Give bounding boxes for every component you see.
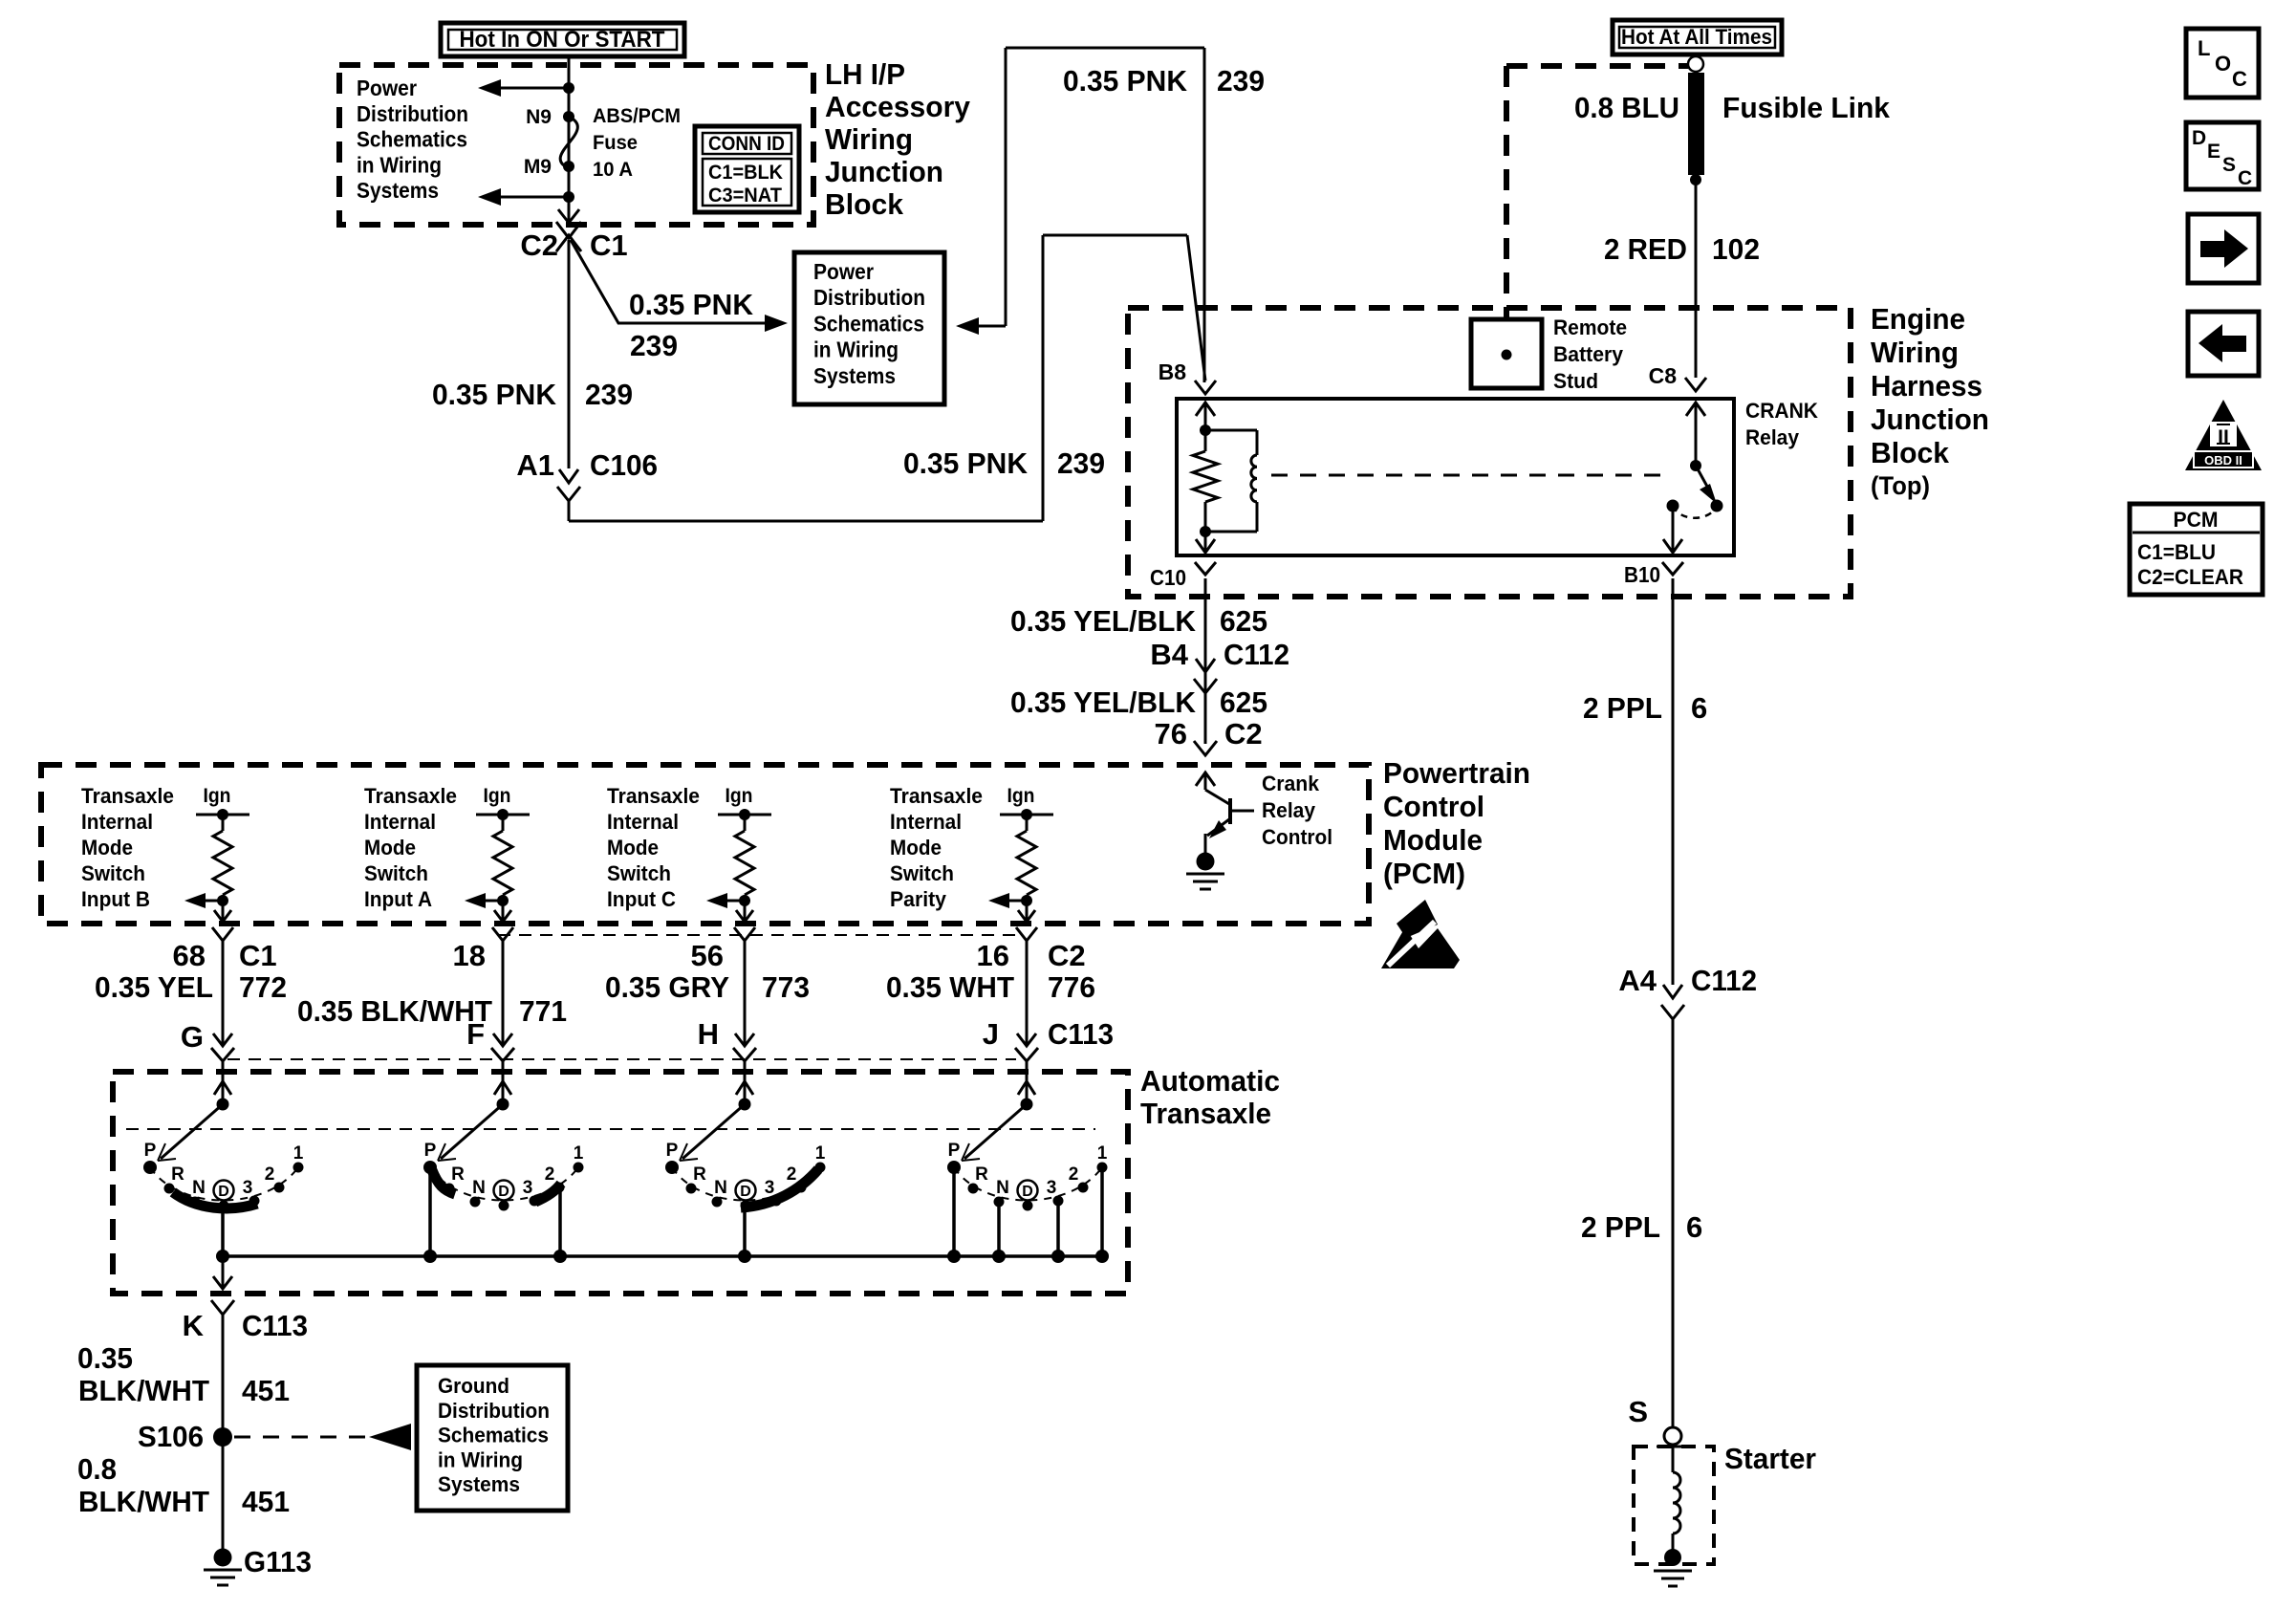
svg-text:Mode: Mode — [607, 836, 659, 859]
svg-text:0.35 YEL: 0.35 YEL — [95, 970, 213, 1004]
svg-text:C2=CLEAR: C2=CLEAR — [2137, 565, 2243, 589]
svg-text:O: O — [2215, 52, 2231, 76]
svg-text:S: S — [2222, 154, 2236, 176]
svg-text:Schematics: Schematics — [438, 1424, 549, 1447]
svg-text:in Wiring: in Wiring — [813, 337, 899, 362]
svg-text:Harness: Harness — [1871, 369, 1982, 402]
svg-text:3: 3 — [765, 1178, 775, 1198]
svg-text:Remote: Remote — [1553, 315, 1627, 339]
svg-text:0.8 BLU: 0.8 BLU — [1574, 91, 1679, 124]
svg-text:A1: A1 — [516, 448, 554, 482]
svg-text:C3=NAT: C3=NAT — [708, 185, 782, 207]
svg-text:K: K — [183, 1309, 205, 1342]
svg-text:C8: C8 — [1649, 363, 1678, 388]
svg-text:H: H — [698, 1017, 719, 1051]
svg-text:II: II — [2218, 426, 2229, 448]
svg-text:J: J — [983, 1017, 999, 1051]
svg-text:Junction: Junction — [1871, 402, 1989, 436]
svg-text:0.35 BLK/WHT: 0.35 BLK/WHT — [297, 994, 492, 1028]
svg-text:D: D — [2192, 127, 2206, 149]
svg-text:Parity: Parity — [890, 887, 947, 911]
svg-text:68: 68 — [173, 939, 206, 972]
svg-text:Distribution: Distribution — [357, 101, 468, 126]
svg-text:F: F — [466, 1017, 485, 1051]
svg-text:P: P — [948, 1141, 961, 1161]
svg-text:Input C: Input C — [607, 887, 676, 911]
svg-text:451: 451 — [242, 1374, 290, 1407]
svg-text:P: P — [424, 1141, 437, 1161]
svg-text:Fuse: Fuse — [593, 132, 638, 154]
svg-text:(PCM): (PCM) — [1383, 857, 1465, 890]
svg-text:N: N — [996, 1178, 1009, 1198]
svg-text:2: 2 — [265, 1164, 275, 1185]
svg-text:ABS/PCM: ABS/PCM — [593, 105, 681, 127]
svg-text:Internal: Internal — [364, 810, 436, 834]
svg-text:0.35 PNK: 0.35 PNK — [432, 378, 557, 411]
svg-text:239: 239 — [1057, 446, 1105, 480]
svg-text:Block: Block — [1871, 436, 1950, 469]
svg-text:P: P — [666, 1141, 679, 1161]
svg-text:C: C — [2238, 167, 2252, 189]
svg-text:18: 18 — [453, 939, 486, 972]
svg-text:D: D — [1022, 1184, 1033, 1200]
svg-text:2 PPL: 2 PPL — [1581, 1210, 1660, 1244]
svg-text:771: 771 — [519, 994, 567, 1028]
svg-text:Internal: Internal — [890, 810, 962, 834]
svg-text:776: 776 — [1048, 970, 1095, 1004]
svg-text:Ign: Ign — [1007, 785, 1035, 807]
svg-text:625: 625 — [1220, 604, 1267, 638]
svg-text:Switch: Switch — [81, 861, 145, 885]
svg-text:C112: C112 — [1691, 964, 1757, 997]
svg-text:Distribution: Distribution — [438, 1399, 550, 1423]
svg-text:PCM: PCM — [2174, 508, 2219, 532]
svg-text:0.35 PNK: 0.35 PNK — [903, 446, 1029, 480]
svg-text:CRANK: CRANK — [1745, 399, 1818, 423]
svg-text:0.35 WHT: 0.35 WHT — [886, 970, 1014, 1004]
svg-text:C112: C112 — [1224, 638, 1289, 671]
svg-text:Switch: Switch — [607, 861, 671, 885]
svg-text:A4: A4 — [1618, 964, 1657, 997]
svg-text:C2: C2 — [520, 228, 558, 262]
svg-text:S106: S106 — [138, 1420, 204, 1453]
svg-text:C1=BLU: C1=BLU — [2137, 540, 2216, 564]
svg-text:R: R — [171, 1164, 184, 1185]
svg-text:Hot At All Times: Hot At All Times — [1621, 25, 1772, 49]
svg-text:Battery: Battery — [1553, 342, 1624, 366]
svg-text:C2: C2 — [1224, 717, 1263, 751]
svg-text:LH I/P: LH I/P — [825, 57, 905, 91]
svg-text:C1=BLK: C1=BLK — [708, 162, 783, 184]
svg-text:R: R — [975, 1164, 988, 1185]
svg-text:D: D — [498, 1184, 509, 1200]
svg-text:Power: Power — [813, 259, 874, 284]
svg-text:R: R — [693, 1164, 706, 1185]
svg-text:Switch: Switch — [890, 861, 954, 885]
svg-text:Stud: Stud — [1553, 369, 1598, 393]
svg-text:3: 3 — [1047, 1178, 1057, 1198]
svg-text:772: 772 — [239, 970, 287, 1004]
svg-text:Transaxle: Transaxle — [1140, 1097, 1271, 1130]
svg-text:B10: B10 — [1624, 562, 1660, 587]
svg-text:Distribution: Distribution — [813, 285, 925, 310]
svg-text:0.35 YEL/BLK: 0.35 YEL/BLK — [1010, 685, 1197, 719]
svg-text:Switch: Switch — [364, 861, 428, 885]
svg-text:Ign: Ign — [204, 785, 231, 807]
svg-text:Ign: Ign — [726, 785, 753, 807]
svg-text:Input B: Input B — [81, 887, 150, 911]
svg-text:C: C — [2232, 67, 2247, 91]
svg-text:CONN ID: CONN ID — [708, 133, 785, 155]
svg-text:239: 239 — [630, 329, 678, 362]
svg-text:56: 56 — [691, 939, 724, 972]
svg-text:2: 2 — [787, 1164, 797, 1185]
svg-text:Control: Control — [1262, 825, 1332, 849]
svg-text:Transaxle: Transaxle — [890, 784, 983, 808]
svg-text:0.35 GRY: 0.35 GRY — [605, 970, 729, 1004]
svg-text:OBD II: OBD II — [2204, 453, 2242, 468]
svg-text:Relay: Relay — [1262, 798, 1316, 822]
svg-text:451: 451 — [242, 1485, 290, 1518]
svg-text:Ground: Ground — [438, 1374, 509, 1398]
svg-text:Mode: Mode — [364, 836, 416, 859]
svg-text:C2: C2 — [1048, 939, 1086, 972]
svg-text:N: N — [192, 1178, 206, 1198]
svg-text:Input A: Input A — [364, 887, 432, 911]
svg-text:Accessory: Accessory — [825, 90, 971, 123]
svg-text:Block: Block — [825, 187, 904, 221]
svg-text:Module: Module — [1383, 823, 1483, 857]
svg-text:625: 625 — [1220, 685, 1267, 719]
svg-text:Crank: Crank — [1262, 772, 1320, 795]
svg-text:P: P — [144, 1141, 157, 1161]
svg-text:10 A: 10 A — [593, 159, 633, 181]
svg-text:1: 1 — [815, 1143, 826, 1164]
svg-text:Control: Control — [1383, 790, 1484, 823]
svg-text:D: D — [740, 1184, 751, 1200]
svg-text:Systems: Systems — [438, 1472, 520, 1496]
svg-text:Transaxle: Transaxle — [364, 784, 457, 808]
svg-text:0.35: 0.35 — [77, 1341, 133, 1375]
svg-text:239: 239 — [585, 378, 633, 411]
svg-text:0.8: 0.8 — [77, 1452, 117, 1486]
svg-text:B8: B8 — [1159, 359, 1187, 384]
svg-text:in Wiring: in Wiring — [357, 152, 442, 177]
svg-text:2 PPL: 2 PPL — [1583, 691, 1662, 725]
svg-text:1: 1 — [574, 1143, 584, 1164]
svg-text:in Wiring: in Wiring — [438, 1447, 523, 1471]
svg-text:3: 3 — [243, 1178, 253, 1198]
svg-text:6: 6 — [1686, 1210, 1702, 1244]
svg-text:Transaxle: Transaxle — [607, 784, 700, 808]
svg-text:Systems: Systems — [357, 178, 439, 203]
svg-text:2: 2 — [1069, 1164, 1079, 1185]
svg-text:R: R — [451, 1164, 465, 1185]
svg-text:C106: C106 — [590, 448, 658, 482]
svg-text:BLK/WHT: BLK/WHT — [78, 1374, 209, 1407]
svg-text:M9: M9 — [524, 156, 552, 178]
svg-text:N: N — [714, 1178, 727, 1198]
svg-text:1: 1 — [1097, 1143, 1108, 1164]
svg-text:Relay: Relay — [1745, 425, 1800, 449]
svg-text:239: 239 — [1217, 64, 1265, 98]
svg-text:BLK/WHT: BLK/WHT — [78, 1485, 209, 1518]
svg-text:16: 16 — [977, 939, 1009, 972]
svg-text:D: D — [218, 1184, 229, 1200]
svg-text:76: 76 — [1155, 717, 1187, 751]
svg-text:Systems: Systems — [813, 363, 896, 388]
svg-text:G: G — [181, 1020, 204, 1054]
svg-text:(Top): (Top) — [1871, 471, 1930, 500]
svg-text:Schematics: Schematics — [813, 311, 924, 336]
svg-text:2: 2 — [545, 1164, 555, 1185]
svg-text:1: 1 — [293, 1143, 304, 1164]
svg-text:0.35 YEL/BLK: 0.35 YEL/BLK — [1010, 604, 1197, 638]
svg-text:C1: C1 — [590, 228, 628, 262]
svg-text:Automatic: Automatic — [1140, 1064, 1280, 1098]
svg-text:Powertrain: Powertrain — [1383, 756, 1530, 790]
svg-text:B4: B4 — [1150, 638, 1188, 671]
svg-text:Engine: Engine — [1871, 302, 1965, 336]
svg-text:C113: C113 — [242, 1309, 308, 1342]
svg-text:Internal: Internal — [607, 810, 679, 834]
svg-text:N9: N9 — [526, 106, 552, 128]
svg-text:E: E — [2207, 141, 2220, 163]
svg-text:0.35 PNK: 0.35 PNK — [629, 288, 754, 321]
svg-text:G113: G113 — [244, 1545, 312, 1578]
svg-text:773: 773 — [762, 970, 810, 1004]
svg-text:C10: C10 — [1150, 565, 1186, 590]
svg-text:Internal: Internal — [81, 810, 153, 834]
svg-text:Ign: Ign — [484, 785, 511, 807]
svg-text:Hot In ON Or START: Hot In ON Or START — [460, 27, 665, 53]
svg-text:Junction: Junction — [825, 155, 943, 188]
svg-text:6: 6 — [1691, 691, 1707, 725]
svg-text:C113: C113 — [1048, 1017, 1114, 1051]
svg-text:3: 3 — [523, 1178, 533, 1198]
svg-text:Fusible Link: Fusible Link — [1722, 91, 1891, 124]
svg-text:Mode: Mode — [890, 836, 942, 859]
svg-text:N: N — [472, 1178, 486, 1198]
svg-text:C1: C1 — [239, 939, 277, 972]
svg-text:Schematics: Schematics — [357, 127, 467, 152]
svg-text:Starter: Starter — [1724, 1442, 1816, 1475]
svg-text:L: L — [2198, 36, 2210, 60]
svg-text:2 RED: 2 RED — [1604, 232, 1687, 266]
svg-text:102: 102 — [1712, 232, 1760, 266]
svg-text:S: S — [1628, 1395, 1648, 1428]
svg-text:Mode: Mode — [81, 836, 133, 859]
svg-text:Wiring: Wiring — [825, 122, 913, 156]
svg-text:Wiring: Wiring — [1871, 336, 1959, 369]
svg-text:Transaxle: Transaxle — [81, 784, 174, 808]
svg-text:Power: Power — [357, 76, 417, 100]
svg-text:0.35 PNK: 0.35 PNK — [1063, 64, 1188, 98]
